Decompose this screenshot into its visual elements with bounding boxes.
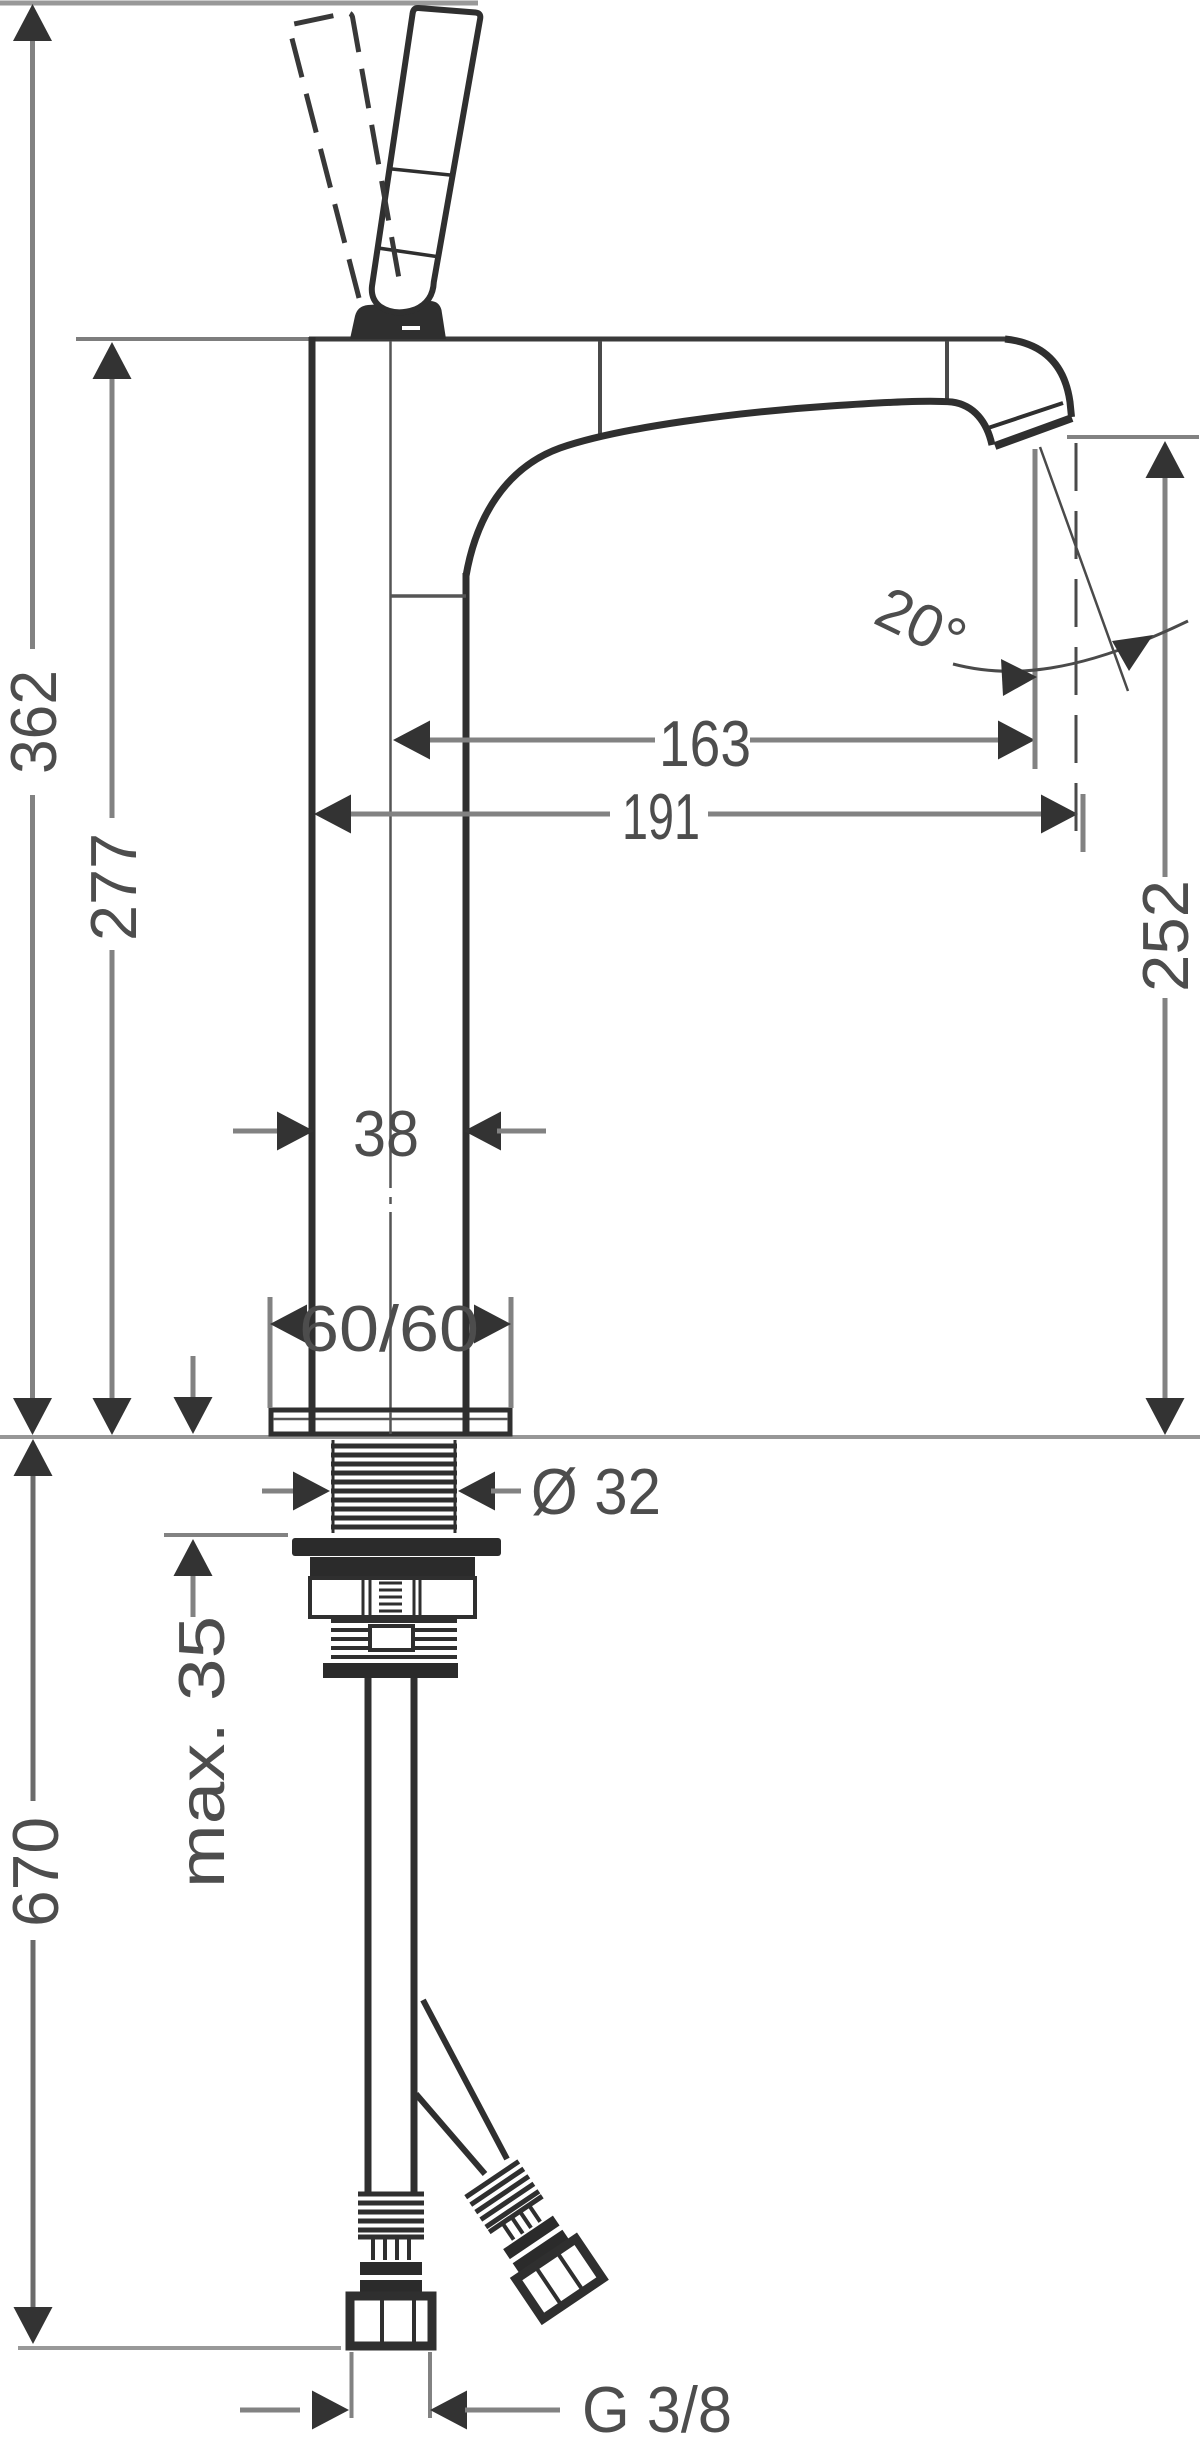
mounting flange [292,1538,501,1556]
angle 20 degrees: arc with arrows [866,574,1188,696]
handle pivot cap [350,301,446,339]
svg-text:252: 252 [1129,880,1200,992]
supply hose angled: fitting [462,2159,602,2319]
faucet body top line [76,337,1010,341]
dimension diameter 32 [262,1455,661,1528]
dimension 38 [233,1097,546,1170]
spout underside curve [466,401,992,576]
dimension 60/60 [270,1292,511,1408]
base plate 60/60 [271,1410,510,1434]
angle 20 degrees: slant line [1040,447,1128,691]
lower threaded section [323,1621,458,1678]
svg-text:277: 277 [77,833,150,941]
handle lever dashed (alternate position) [290,13,401,298]
svg-text:362: 362 [0,670,70,774]
threaded shank [331,1440,457,1533]
supply hose angled: tube [416,2000,507,2174]
svg-text:191: 191 [622,780,700,853]
angle 20 degrees: dashed vertical reference [1075,443,1078,845]
faucet body left edge [309,337,316,1412]
extension line top (handle top reference) [0,1,478,6]
dimension 277 [77,342,150,1435]
extension line x=1035 (spout outlet) [1033,449,1038,769]
svg-text:163: 163 [659,707,751,780]
body internal bottom line [390,594,466,598]
spout seam line right [945,341,949,401]
mounting nut upper band [310,1557,475,1577]
dimension 163 [393,707,1035,780]
spout top corner [1005,339,1072,417]
supply hose straight [368,1678,414,2194]
faucet body right edge [463,573,470,1412]
handle lever solid [372,8,481,312]
spout aerator line [988,403,1063,428]
dimension 362 [0,4,70,1435]
svg-text:670: 670 [0,1817,72,1927]
dimension G 3/8 [240,2352,732,2446]
dimension 191 [314,780,1078,853]
svg-text:G 3/8: G 3/8 [582,2373,732,2446]
svg-text:38: 38 [353,1097,419,1170]
dimension 252 [1067,437,1200,1435]
dimension 670 [0,1439,341,2348]
svg-text:max. 35: max. 35 [165,1616,238,1888]
countertop line [0,1435,1200,1439]
body-spout seam line [598,341,602,436]
faucet center line [389,341,392,1408]
dimension max. 35 [164,1356,288,1888]
svg-text:Ø 32: Ø 32 [531,1455,661,1528]
svg-text:60/60: 60/60 [299,1292,479,1365]
extension line x=1083 [1081,794,1086,852]
pivot cap white slit [402,326,420,330]
straight hose fitting [350,2192,432,2346]
mounting nut body [310,1578,475,1617]
spout mouth face [995,418,1072,446]
